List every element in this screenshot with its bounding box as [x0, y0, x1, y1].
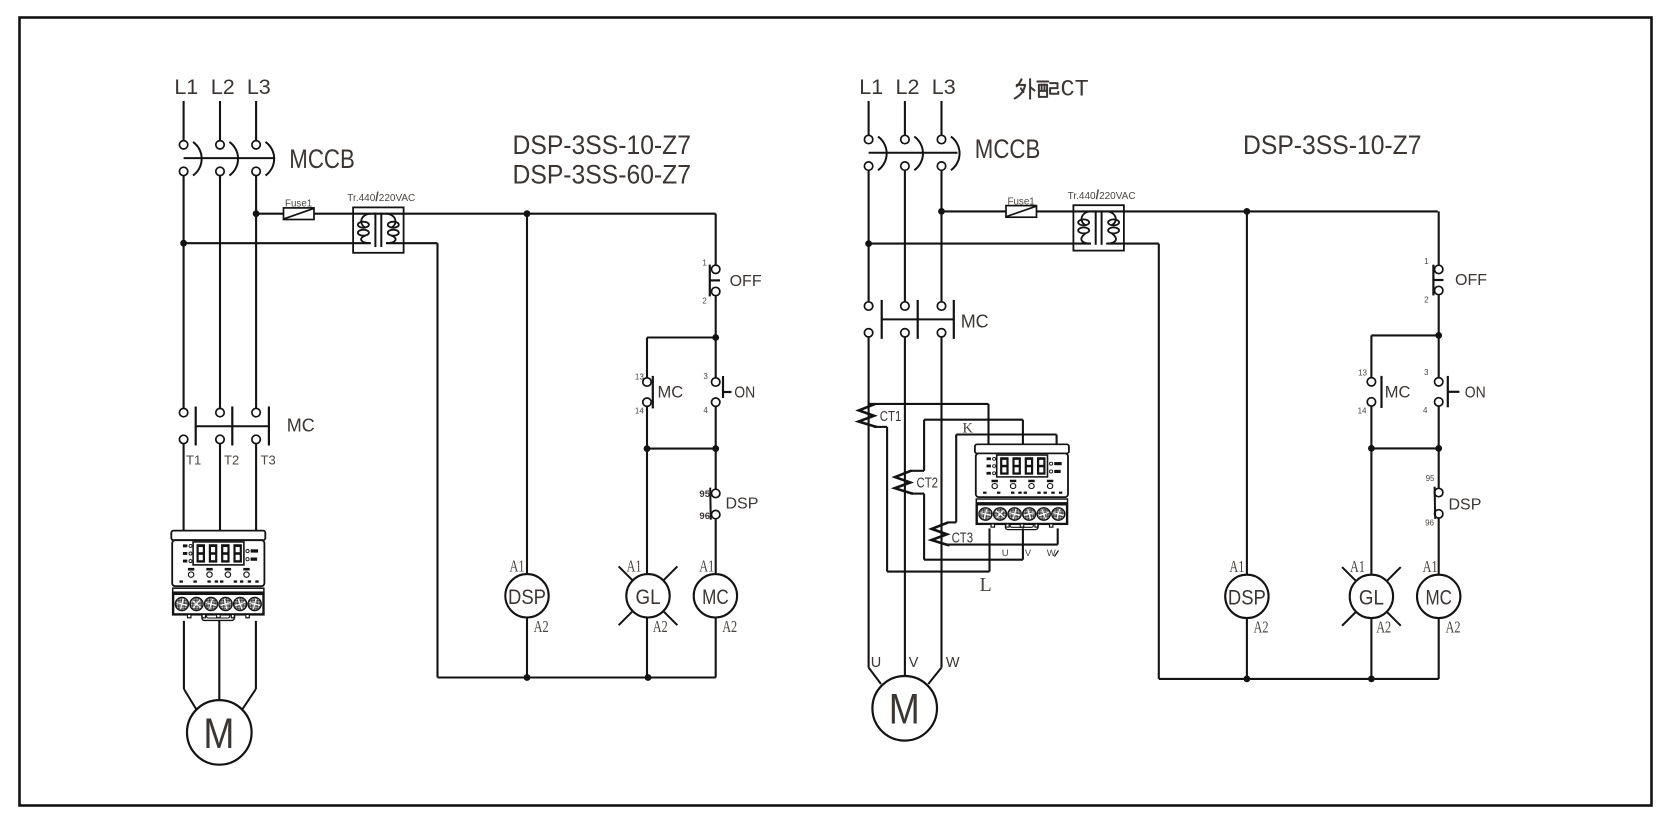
svg-text:U: U	[1002, 548, 1009, 559]
wire OFF junction to ON	[715, 338, 717, 378]
svg-text:A1: A1	[699, 557, 714, 576]
breaker MCCB pole 3 (right)	[937, 135, 945, 143]
svg-text:DSP: DSP	[1228, 586, 1266, 609]
wire CT2 K tap	[911, 470, 924, 472]
wire DSP coil branch down (right)	[1246, 211, 1248, 575]
contactor MC pole 3	[252, 408, 260, 416]
svg-text:A1: A1	[510, 557, 525, 576]
node junction bottom DSP (right)	[1244, 676, 1251, 683]
wire L3 MC to motor (right)	[940, 337, 942, 667]
wire T2 to relay	[219, 444, 221, 531]
svg-text:A2: A2	[653, 617, 668, 636]
svg-text:DSP-3SS-10-Z7: DSP-3SS-10-Z7	[1243, 130, 1422, 160]
svg-text:A2: A2	[534, 617, 549, 636]
svg-text:MC: MC	[658, 384, 684, 402]
svg-text:Tr.440/220VAC: Tr.440/220VAC	[1068, 188, 1136, 202]
pushbutton OFF (left)	[712, 265, 720, 273]
lamp GL (left)	[619, 566, 633, 580]
wire relay to motor V	[218, 621, 220, 700]
wire junction to GL (right)	[1370, 448, 1372, 575]
svg-text:A1: A1	[627, 557, 642, 576]
svg-text:Tr.440/220VAC: Tr.440/220VAC	[347, 190, 415, 204]
svg-text:CT: CT	[1061, 77, 1089, 104]
wire CT3 L tap	[948, 544, 1058, 546]
lamp GL (right)	[1342, 567, 1356, 581]
fuse Fuse1 (right)	[1006, 206, 1037, 218]
wire fuse to transformer primary	[314, 213, 716, 215]
svg-text:MCCB: MCCB	[289, 144, 355, 174]
node junction rail right	[712, 445, 719, 452]
node junction rail right (right)	[1435, 445, 1442, 452]
node junction bottom DSP	[524, 674, 531, 681]
wire L2 drop to MCCB (right)	[904, 101, 906, 135]
svg-text:3: 3	[1424, 368, 1429, 377]
wire DSP contact to MC coil	[715, 519, 717, 574]
svg-text:OFF: OFF	[730, 273, 762, 290]
wire junction rail (right)	[1371, 447, 1438, 449]
svg-text:T2: T2	[224, 453, 239, 468]
svg-text:4: 4	[1423, 406, 1428, 415]
svg-text:13: 13	[1358, 368, 1367, 377]
wire L2 drop to MCCB	[219, 101, 221, 140]
relay DSP-3SS device (left)	[171, 531, 265, 621]
contactor MC pole 1 (right)	[864, 302, 872, 310]
node junction on L1 to primary	[180, 240, 187, 247]
svg-text:MC: MC	[287, 416, 315, 436]
node junction control top at DSP branch	[524, 210, 531, 217]
svg-text:A2: A2	[722, 617, 737, 636]
transformer Tr.440/220VAC	[353, 207, 404, 252]
svg-text:Fuse1: Fuse1	[1008, 196, 1035, 207]
svg-text:1: 1	[1424, 257, 1429, 266]
contact DSP 95-96 (left)	[712, 489, 720, 497]
svg-text:L1: L1	[859, 75, 883, 99]
wire MC coil to bottom rail (right)	[1438, 618, 1440, 679]
breaker MCCB pole 3	[252, 141, 260, 149]
svg-text:L: L	[980, 574, 992, 596]
wire L2 MCCB to MC	[219, 176, 221, 408]
wire L3 MCCB to MC (right)	[940, 171, 942, 302]
node junction below OFF (right)	[1435, 332, 1442, 339]
svg-text:CT1: CT1	[880, 409, 902, 425]
svg-text:L2: L2	[896, 75, 920, 99]
svg-text:DSP: DSP	[1449, 497, 1482, 514]
wire control bottom rail (right)	[1159, 678, 1439, 680]
svg-text:T3: T3	[261, 453, 276, 468]
wire GL to bottom rail (right)	[1370, 618, 1372, 679]
svg-text:A1: A1	[1423, 557, 1438, 576]
wire relay to motor U	[183, 621, 185, 689]
svg-text:V: V	[1025, 548, 1032, 559]
svg-text:96: 96	[1425, 518, 1434, 527]
svg-text:M: M	[889, 686, 920, 734]
svg-text:U: U	[871, 655, 881, 671]
node junction rail left	[644, 445, 651, 452]
svg-text:14: 14	[635, 407, 644, 416]
contactor MC pole 3 (right)	[937, 302, 945, 310]
svg-text:MCCB: MCCB	[975, 134, 1041, 164]
svg-text:T1: T1	[186, 453, 201, 468]
svg-text:GL: GL	[636, 586, 661, 609]
wire DSP coil to bottom rail (right)	[1246, 618, 1248, 679]
wire L1 junction to primary bottom (right)	[869, 243, 1091, 245]
wire T3 to relay	[255, 444, 257, 531]
wire T1 to relay	[183, 444, 185, 531]
svg-text:1: 1	[702, 258, 707, 267]
contactor MC pole 2 (right)	[901, 302, 909, 310]
svg-text:MC: MC	[1385, 384, 1411, 402]
node junction bottom GL (right)	[1368, 676, 1375, 683]
coil DSP (left)	[505, 574, 548, 617]
MC tie bar	[196, 425, 269, 427]
svg-text:A1: A1	[1229, 557, 1244, 576]
CT CT2	[895, 471, 913, 494]
node junction below OFF	[712, 334, 719, 341]
motor M (left)	[187, 700, 252, 765]
node junction control top at DSP branch (right)	[1244, 208, 1251, 215]
label 外配CT	[1015, 79, 1059, 99]
MC tie bar (right)	[882, 318, 954, 320]
pushbutton OFF (right)	[1435, 265, 1443, 273]
motor M (right)	[872, 676, 937, 741]
svg-text:A2: A2	[1376, 617, 1391, 636]
wire L3 drop to MCCB (right)	[940, 101, 942, 135]
svg-text:GL: GL	[1359, 586, 1384, 609]
contactor MC pole 2	[216, 408, 224, 416]
wire CT1 L tap	[874, 426, 887, 428]
svg-text:OFF: OFF	[1455, 272, 1487, 289]
wire OFF to junction	[715, 296, 717, 338]
wire L3 MCCB to MC	[255, 176, 257, 408]
svg-text:DSP-3SS-10-Z7: DSP-3SS-10-Z7	[513, 130, 692, 160]
svg-text:CT2: CT2	[917, 476, 939, 492]
svg-text:W: W	[1047, 548, 1056, 559]
wire L1 drop to MCCB (right)	[868, 101, 870, 135]
svg-text:M: M	[203, 710, 234, 758]
svg-text:95: 95	[699, 489, 710, 500]
coil MC (right)	[1417, 575, 1460, 618]
contact DSP 95-96 (right)	[1435, 488, 1443, 496]
svg-text:DSP: DSP	[726, 495, 759, 512]
breaker MCCB pole 1	[179, 141, 187, 149]
svg-text:95: 95	[1426, 474, 1435, 483]
wire L1 MCCB to MC	[183, 176, 185, 408]
pushbutton ON (right)	[1435, 378, 1443, 386]
contactor MC pole 1	[179, 408, 187, 416]
wire MC aux to junction rail (right)	[1370, 406, 1372, 448]
wire DSP coil to bottom rail	[526, 617, 528, 677]
svg-text:ON: ON	[1465, 385, 1486, 402]
wire L2 MCCB to MC (right)	[904, 171, 906, 302]
CT CT1	[859, 404, 877, 427]
node junction on L3 to fuse	[253, 210, 260, 217]
svg-text:2: 2	[1424, 295, 1429, 304]
svg-text:4: 4	[703, 406, 708, 415]
svg-text:ON: ON	[734, 385, 755, 402]
wire CT2 L tap	[911, 493, 925, 495]
svg-text:MC: MC	[961, 311, 989, 331]
wire MC aux branch down (right)	[1370, 335, 1372, 377]
relay DSP-3SS device (right)	[975, 444, 1069, 529]
wire relay to motor W	[255, 621, 257, 689]
svg-text:MC: MC	[702, 586, 729, 609]
svg-text:MC: MC	[1425, 586, 1452, 609]
wire L1 MCCB to MC (right)	[868, 171, 870, 302]
wire secondary return down (right)	[1158, 244, 1160, 679]
wire junction to MC aux branch	[647, 336, 716, 338]
wire DSP coil branch down	[526, 214, 528, 575]
wire CT1 K tap	[869, 403, 989, 405]
wire control bottom rail	[438, 676, 716, 678]
wire junction to GL	[646, 449, 648, 575]
node junction bottom GL	[645, 674, 652, 681]
breaker MCCB pole 2 (right)	[901, 135, 909, 143]
svg-text:L2: L2	[211, 75, 235, 99]
pushbutton ON (left)	[712, 378, 720, 386]
wire OFF junction to ON (right)	[1438, 335, 1440, 377]
wire MC aux to junction rail	[646, 406, 648, 448]
wire MC aux branch down	[646, 338, 648, 378]
wire MC coil to bottom rail	[715, 617, 717, 677]
wire L3 junction to fuse (right)	[942, 210, 1007, 212]
node junction on L1 to primary (right)	[865, 240, 872, 247]
wire L1 drop to MCCB	[183, 101, 185, 140]
wire ON to junction rail	[715, 406, 717, 448]
svg-text:V: V	[909, 655, 919, 671]
wire top rail to OFF	[715, 214, 717, 266]
coil MC (left)	[694, 574, 737, 617]
wire secondary bottom out (right)	[1106, 243, 1159, 245]
svg-text:DSP-3SS-60-Z7: DSP-3SS-60-Z7	[513, 159, 692, 189]
svg-text:3: 3	[703, 372, 708, 381]
CT CT3	[931, 522, 949, 545]
wire OFF to junction (right)	[1438, 295, 1440, 336]
wire L1 MC to motor (right)	[868, 337, 870, 667]
fuse Fuse1	[284, 208, 315, 220]
wire junction rail	[647, 448, 716, 450]
wire junction to MC aux branch (right)	[1371, 334, 1438, 336]
wire fuse to transformer (right)	[1037, 210, 1438, 212]
svg-text:96: 96	[699, 511, 710, 522]
wire L3 junction to fuse	[256, 213, 283, 215]
wire junction to DSP contact	[715, 449, 717, 490]
svg-text:A2: A2	[1446, 617, 1461, 636]
contact MC aux 13-14	[643, 378, 651, 386]
wire top rail to OFF (right)	[1438, 211, 1440, 265]
node junction on L3 to fuse (right)	[938, 208, 945, 215]
svg-text:2: 2	[702, 297, 707, 306]
breaker MCCB pole 2	[216, 141, 224, 149]
transformer Tr.440/220VAC (right)	[1073, 205, 1124, 250]
wire DSP contact to MC coil (right)	[1438, 518, 1440, 575]
wire L1 junction to transformer primary bottom	[184, 242, 371, 244]
wire ON to junction rail (right)	[1438, 406, 1440, 448]
wire junction to DSP contact (right)	[1438, 448, 1440, 488]
svg-text:Fuse1: Fuse1	[285, 199, 312, 210]
coil DSP (right)	[1225, 575, 1268, 618]
svg-text:DSP: DSP	[508, 586, 546, 609]
MCCB tie bar	[184, 157, 275, 159]
svg-text:W: W	[946, 655, 960, 671]
wire secondary bottom out	[386, 242, 438, 244]
contact MC aux 13-14 (right)	[1367, 378, 1375, 386]
svg-text:14: 14	[1358, 407, 1367, 416]
wire secondary return down	[436, 243, 438, 677]
svg-text:13: 13	[635, 372, 644, 381]
MCCB tie bar (right)	[869, 152, 958, 154]
wire L3 drop to MCCB	[255, 101, 257, 140]
svg-text:L1: L1	[174, 75, 198, 99]
svg-text:A2: A2	[1254, 617, 1269, 636]
svg-text:L3: L3	[932, 75, 956, 99]
wire CT3 K tap	[948, 521, 957, 523]
wire GL to bottom rail	[646, 617, 648, 677]
node junction rail left (right)	[1368, 445, 1375, 452]
breaker MCCB pole 1 (right)	[864, 135, 872, 143]
svg-text:L3: L3	[247, 75, 271, 99]
svg-text:A1: A1	[1350, 557, 1365, 576]
wire L2 MC to motor (right)	[904, 337, 906, 676]
